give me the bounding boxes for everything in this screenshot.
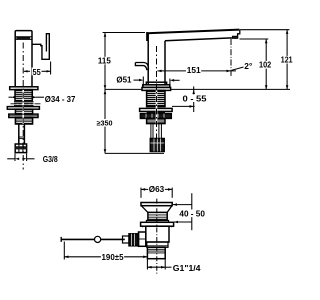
svg-text:121: 121 (281, 55, 293, 65)
svg-text:115: 115 (98, 55, 111, 65)
svg-text:102: 102 (259, 60, 271, 70)
svg-text:55: 55 (33, 67, 41, 77)
svg-text:≥350: ≥350 (97, 118, 113, 127)
svg-text:2°: 2° (244, 61, 252, 71)
svg-text:0 - 55: 0 - 55 (183, 93, 207, 103)
svg-text:Ø63: Ø63 (149, 184, 165, 194)
svg-text:151: 151 (187, 65, 201, 75)
svg-text:Ø34 - 37: Ø34 - 37 (45, 94, 76, 104)
svg-text:40 - 50: 40 - 50 (179, 208, 205, 218)
svg-text:Ø51: Ø51 (116, 75, 131, 85)
svg-text:G3/8: G3/8 (43, 154, 58, 164)
svg-text:G1"1/4: G1"1/4 (173, 263, 201, 273)
svg-text:190±5: 190±5 (102, 252, 124, 262)
